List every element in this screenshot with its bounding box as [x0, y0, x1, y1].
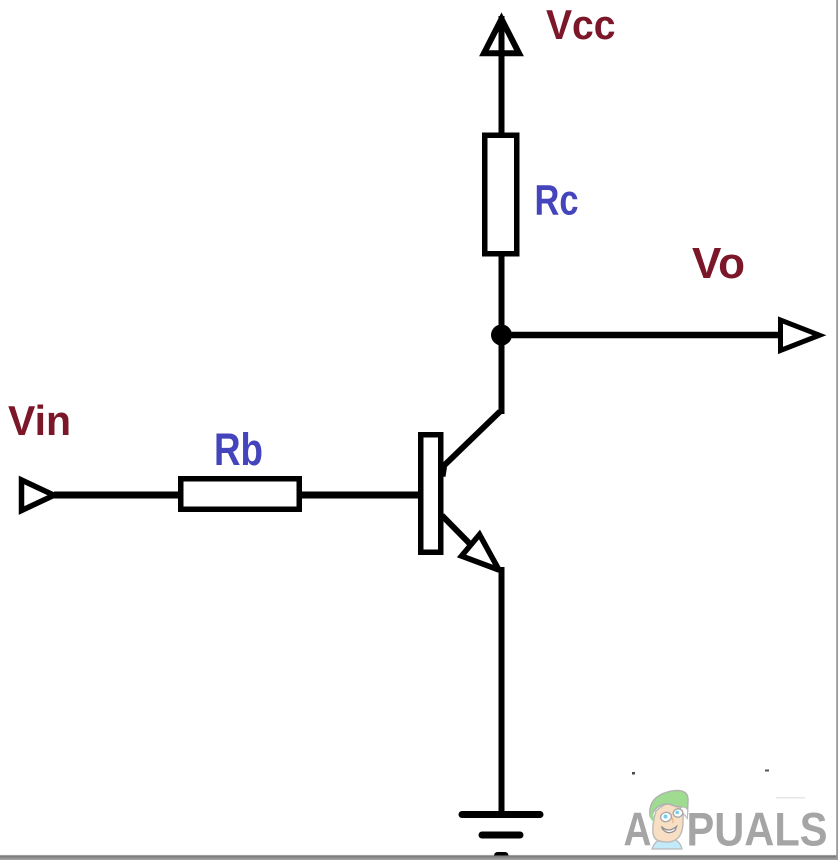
svg-text:PUALS: PUALS [687, 804, 828, 857]
svg-text:A: A [624, 804, 652, 857]
svg-text:Rb: Rb [214, 424, 263, 475]
svg-text:Vo: Vo [692, 240, 745, 288]
svg-text:Vin: Vin [8, 397, 71, 444]
svg-text:Rc: Rc [535, 177, 579, 225]
svg-text:Vcc: Vcc [546, 1, 616, 48]
